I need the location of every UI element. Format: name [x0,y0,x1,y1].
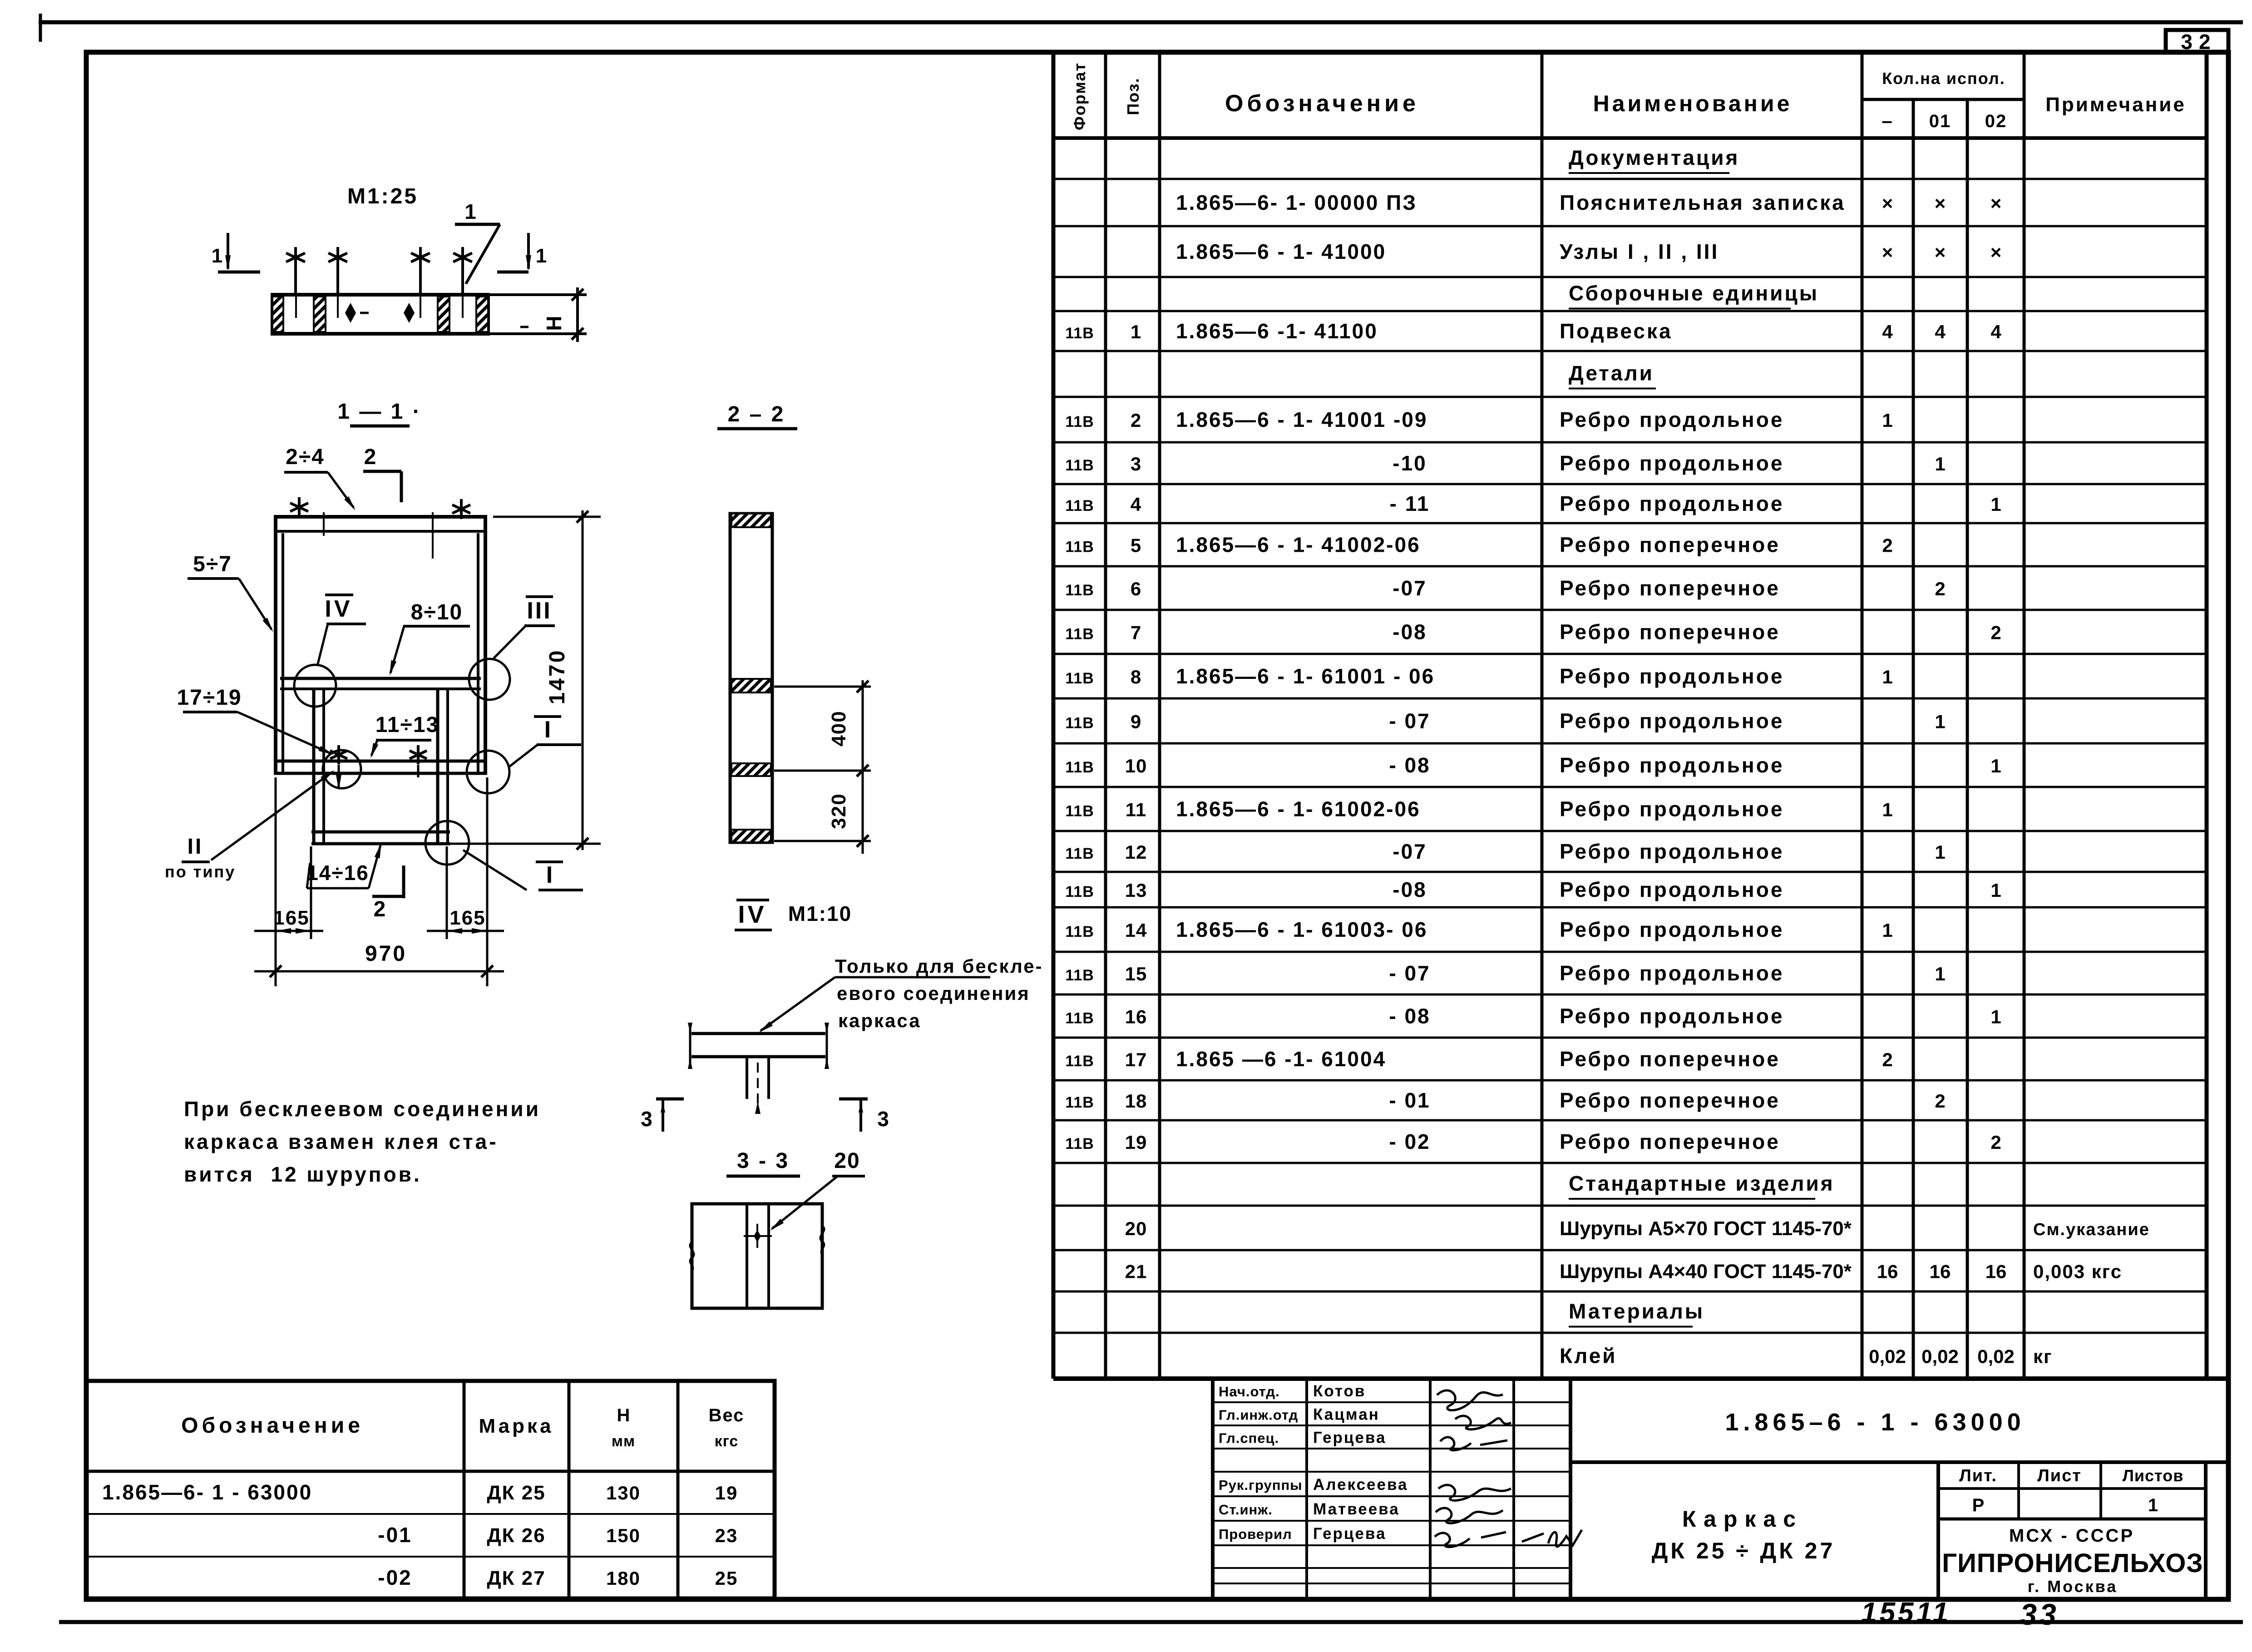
svg-text:Поз.: Поз. [1124,77,1142,115]
table row 14 [1065,709,1945,733]
plan bar diamonds [345,303,356,323]
svg-text:320: 320 [828,793,850,829]
svg-text:-02: -02 [378,1566,412,1589]
svg-text:Ребро продольное: Ребро продольное [1560,408,1784,431]
svg-text:1.865—6- 1 - 63000: 1.865—6- 1 - 63000 [102,1480,312,1504]
node circle d (I bottom) [425,821,469,865]
svg-text:2: 2 [364,445,376,469]
svg-text:Лист: Лист [2037,1466,2082,1485]
svg-text:4: 4 [1990,321,2001,342]
svg-text:Ребро поперечное: Ребро поперечное [1560,576,1780,600]
callout 2-4 with leader [284,445,356,510]
table row 10 [1065,533,1892,557]
dimension 165 left [254,777,323,986]
svg-text:0,02: 0,02 [1977,1346,2015,1367]
svg-text:02: 02 [1985,111,2007,131]
svg-text:Ребро продольное: Ребро продольное [1560,961,1784,985]
svg-text:11В: 11В [1065,845,1094,862]
dimension 1470 [450,510,601,850]
label 11-13 with leader [370,713,439,758]
svg-text:кг: кг [2033,1346,2053,1367]
svg-text:16: 16 [1877,1261,1898,1282]
svg-text:Ребро продольное: Ребро продольное [1560,918,1784,941]
svg-text:-08: -08 [1393,620,1427,644]
svg-text:каркаса взамен клея ста-: каркаса взамен клея ста- [184,1130,499,1153]
svg-text:1.865—6 - 1- 61002-06: 1.865—6 - 1- 61002-06 [1176,797,1421,821]
svg-text:×: × [1935,242,1946,263]
label 20 with leader [770,1149,865,1231]
svg-text:14÷16: 14÷16 [306,861,369,885]
table row 20 [1065,961,1945,985]
svg-text:1470: 1470 [545,649,569,705]
svg-text:11В: 11В [1065,1010,1094,1027]
table row 3 [1176,240,2001,263]
svg-text:-10: -10 [1393,451,1427,475]
signature row: Рук.группы [1219,1476,1408,1494]
svg-text:Н: Н [542,316,566,331]
section label 3-3 [726,1149,800,1176]
svg-text:ДК 25: ДК 25 [487,1482,545,1504]
svg-text:1: 1 [1882,410,1892,431]
svg-text:11В: 11В [1065,803,1094,820]
svg-text:16: 16 [1125,1006,1147,1028]
svg-text:При бесклеевом соединении: При бесклеевом соединении [184,1097,541,1121]
svg-text:10: 10 [1125,755,1147,777]
svg-text:11В: 11В [1065,1053,1094,1070]
svg-text:16: 16 [1985,1261,2007,1282]
svg-text:Гл.инж.отд: Гл.инж.отд [1219,1407,1298,1423]
svg-text:2 – 2: 2 – 2 [728,402,785,426]
svg-text:вится 12 шурупов.: вится 12 шурупов. [184,1162,422,1186]
section mark 1 (right) [497,233,547,272]
svg-text:Ребро продольное: Ребро продольное [1560,1004,1784,1028]
svg-text:См.указание: См.указание [2033,1220,2150,1239]
svg-text:каркаса: каркаса [838,1010,921,1031]
svg-text:Шурупы А5×70 ГОСТ 1145-70*: Шурупы А5×70 ГОСТ 1145-70* [1560,1217,1852,1240]
svg-text:0,02: 0,02 [1921,1346,1959,1367]
svg-text:32: 32 [2181,30,2217,54]
bottom-left table row 2 [378,1523,738,1547]
svg-text:IV: IV [325,596,352,622]
table row 7 [1065,408,1892,431]
svg-text:11В: 11В [1065,325,1094,342]
1-1 frame: mid rib (8-10) [280,677,481,680]
svg-text:1.865—6 - 1- 61001 - 06: 1.865—6 - 1- 61001 - 06 [1176,664,1435,688]
svg-text:0,003 кгс: 0,003 кгс [2033,1261,2122,1282]
svg-text:Н: Н [617,1405,630,1425]
table row 24 [1065,1130,2001,1153]
svg-text:М1:25: М1:25 [347,184,418,208]
svg-text:400: 400 [828,710,850,746]
table row 5 [1065,319,2001,343]
svg-text:Материалы: Материалы [1569,1300,1704,1323]
table row 1 [1569,146,1739,173]
spec table row lines [1053,178,2207,180]
label IV with leader [318,595,366,664]
node circle c (I) [467,751,509,793]
svg-text:4: 4 [1935,321,1946,342]
svg-text:6: 6 [1131,578,1141,599]
svg-text:1: 1 [1935,963,1945,984]
3-3 break squiggles [690,1242,694,1271]
svg-text:970: 970 [365,942,407,966]
svg-text:Стандартные изделия: Стандартные изделия [1569,1172,1835,1195]
svg-text:1: 1 [536,245,547,267]
svg-text:Обозначение: Обозначение [181,1414,364,1438]
2-2 dimension 400/320 [774,680,871,854]
svg-text:Пояснительная записка: Пояснительная записка [1560,191,1846,214]
svg-text:Вес: Вес [709,1405,745,1425]
svg-text:МСХ - СССР: МСХ - СССР [2009,1526,2134,1546]
section label 1-1 [337,400,421,426]
svg-text:1.865 —6 -1- 61004: 1.865 —6 -1- 61004 [1176,1047,1386,1071]
svg-text:-07: -07 [1393,840,1427,863]
svg-text:ДК 25 ÷ ДК 27: ДК 25 ÷ ДК 27 [1652,1538,1836,1563]
svg-text:2: 2 [1882,1049,1892,1070]
svg-text:11: 11 [1126,799,1146,821]
svg-text:- 02: - 02 [1389,1130,1430,1153]
svg-text:1.865–6 - 1 - 63000: 1.865–6 - 1 - 63000 [1725,1409,2025,1436]
svg-text:Формат: Формат [1070,62,1089,130]
svg-text:12: 12 [1125,841,1147,863]
svg-text:Котов: Котов [1313,1382,1366,1400]
table row 26 [1125,1217,2150,1240]
dimension 165 right [427,777,504,986]
svg-text:1: 1 [1990,755,2001,777]
svg-text:Нач.отд.: Нач.отд. [1219,1384,1280,1400]
svg-text:2: 2 [1990,622,2001,643]
svg-text:2: 2 [1990,1132,2001,1153]
svg-text:21: 21 [1125,1261,1147,1282]
table row 6 [1569,361,1656,389]
table row 23 [1065,1088,1945,1112]
svg-text:11В: 11В [1065,582,1094,599]
node circle e (17-19) [323,750,361,788]
label III with leader [494,597,555,658]
svg-text:1.865—6 - 1- 41001 -09: 1.865—6 - 1- 41001 -09 [1176,408,1427,431]
svg-text:165: 165 [273,907,309,929]
T-joint detail: horizontal bar [691,1032,825,1035]
svg-text:3: 3 [1131,453,1141,475]
svg-text:1: 1 [1935,711,1945,732]
1-1 frame: lower rib (11-13) [274,760,487,763]
top-left corner tick [39,14,42,42]
svg-text:3: 3 [877,1107,889,1131]
svg-text:Документация: Документация [1569,146,1739,169]
table row 27 [1125,1261,2122,1283]
svg-text:11В: 11В [1065,715,1094,732]
svg-text:8÷10: 8÷10 [411,600,463,624]
bottom-left table row lines [86,1470,775,1473]
svg-text:11В: 11В [1065,1135,1094,1152]
note: pri beskleevom soedinenii [184,1097,541,1186]
svg-text:25: 25 [715,1568,738,1589]
svg-text:01: 01 [1929,111,1951,131]
section mark 1 (top right leader) [455,200,500,284]
svg-text:Ребро продольное: Ребро продольное [1560,878,1784,901]
svg-text:1.865—6 - 1- 41000: 1.865—6 - 1- 41000 [1176,240,1386,263]
leader from note to joint [835,976,990,979]
label 8-10 with leader [390,600,470,676]
svg-text:III: III [527,598,552,624]
table row 8 [1065,451,1945,475]
bottom-left table column lines [463,1381,466,1598]
table row 18 [1065,878,2001,901]
spec table column lines [1052,52,1056,1379]
svg-text:кгс: кгс [715,1433,739,1450]
svg-text:150: 150 [606,1525,641,1546]
svg-text:3: 3 [641,1107,652,1131]
svg-text:Кол.на испол.: Кол.на испол. [1882,69,2005,88]
svg-text:1: 1 [1935,453,1945,475]
svg-text:Р: Р [1972,1495,1985,1515]
signature row: Нач.отд. [1219,1382,1366,1400]
svg-text:ДК 26: ДК 26 [487,1524,545,1547]
plan bar inner divider lines [295,295,297,318]
table row 19 [1065,918,1892,941]
section mark 3 (left) [641,1099,684,1132]
svg-text:Кацман: Кацман [1313,1406,1380,1424]
svg-text:2: 2 [1935,1090,1945,1112]
svg-text:Марка: Марка [479,1415,553,1437]
label I (right) with leader [509,717,581,767]
svg-text:Узлы I , II , III: Узлы I , II , III [1560,240,1719,263]
svg-text:Клей: Клей [1560,1344,1617,1368]
svg-text:×: × [1882,242,1893,263]
svg-text:18: 18 [1125,1090,1147,1112]
svg-text:1: 1 [1990,494,2001,515]
section label 2-2 [717,402,797,429]
svg-text:1 — 1 ·: 1 — 1 · [337,400,421,424]
outer top border line [39,20,2243,25]
plan view bar outline [272,295,488,334]
svg-text:Ребро продольное: Ребро продольное [1560,753,1784,777]
2-2 bar outline [730,514,772,842]
stars on lower rib [330,745,347,764]
spec table header bottom line [1053,136,2207,140]
svg-text:2: 2 [1882,535,1892,556]
table row 28 [1569,1300,1704,1327]
svg-text:33: 33 [2020,1598,2059,1631]
stars on top chord [290,497,308,517]
svg-text:1: 1 [1882,799,1892,821]
table row 9 [1065,492,2001,515]
svg-text:×: × [1882,193,1893,214]
svg-text:Ребро поперечное: Ребро поперечное [1560,620,1780,644]
svg-text:13: 13 [1125,880,1147,901]
svg-text:16: 16 [1930,1261,1951,1282]
svg-text:2: 2 [1935,578,1945,599]
svg-text:Ребро поперечное: Ребро поперечное [1560,1047,1780,1071]
svg-text:Ребро продольное: Ребро продольное [1560,797,1784,821]
svg-text:Детали: Детали [1569,361,1654,385]
svg-text:IV: IV [738,901,766,928]
signature row: Гл.спец. [1219,1429,1386,1447]
svg-text:г. Москва: г. Москва [2028,1577,2118,1596]
svg-text:1.865—6- 1- 00000 ПЗ: 1.865—6- 1- 00000 ПЗ [1176,191,1417,214]
svg-text:4: 4 [1131,494,1141,515]
title block: document number cell line [1570,1460,2228,1464]
svg-text:17: 17 [1125,1049,1147,1070]
svg-text:Ст.инж.: Ст.инж. [1219,1502,1273,1518]
signature row: Проверил [1219,1525,1386,1543]
dimension 970 [254,942,504,977]
svg-text:1: 1 [1935,841,1945,863]
svg-text:14: 14 [1125,920,1147,941]
svg-text:9: 9 [1131,711,1141,732]
svg-text:2: 2 [374,897,386,921]
svg-text:–: – [1882,110,1893,131]
1-1 frame: right inner vertical [436,689,440,844]
plan H dimension [490,287,587,342]
svg-text:Ребро продольное: Ребро продольное [1560,451,1784,475]
table row 2 [1176,191,2001,214]
2-2 hatched bands [731,514,771,527]
svg-text:×: × [1935,193,1946,214]
bottom-left table row 3 [378,1566,738,1589]
section mark 3 (right) [839,1099,889,1132]
svg-text:М1:10: М1:10 [788,902,852,925]
svg-text:1.865—6 - 1- 61003- 06: 1.865—6 - 1- 61003- 06 [1176,918,1427,941]
label 14-16 flag with leader [306,843,381,888]
svg-text:1: 1 [1882,666,1892,688]
screw stars above plan bar [286,247,305,268]
table row 21 [1065,1004,2001,1028]
1-1 frame: left inner vertical [312,689,316,844]
svg-text:II: II [188,835,203,859]
svg-text:- 11: - 11 [1390,492,1430,515]
svg-text:20: 20 [834,1149,860,1173]
outer bottom border line [59,1620,2243,1624]
label 17-19 with leader [177,686,334,755]
table row 17 [1065,840,1945,863]
note: tolko dlya beskleevogo [835,955,1043,1031]
signature scribbles [1437,1390,1503,1410]
spec table sub-header split line (kol na ispol) [1862,98,2024,101]
svg-text:по типу: по типу [165,862,236,881]
table row 11 [1065,576,1945,600]
table row 12 [1065,620,2001,644]
detail label IV M1:10 [735,900,852,930]
spec table bottom line [1053,1376,2228,1381]
svg-text:1: 1 [464,200,476,223]
svg-text:165: 165 [449,907,485,929]
bottom-left table frame [86,1381,775,1598]
section mark 2 (top) [363,445,401,502]
svg-text:Проверил: Проверил [1219,1526,1292,1542]
1-1 frame: right post [484,515,487,775]
svg-text:5: 5 [1131,535,1141,556]
svg-text:I: I [544,717,551,743]
svg-text:5÷7: 5÷7 [193,552,232,576]
1-1 frame: bottom chord [311,831,450,834]
svg-text:ДК 27: ДК 27 [487,1567,545,1589]
svg-text:Листов: Листов [2123,1466,2184,1485]
svg-text:2: 2 [1131,410,1141,431]
svg-text:Наименование: Наименование [1593,91,1793,116]
node circle b (III) [469,659,510,700]
label I (bottom right) with leader [463,850,583,890]
svg-text:Ребро поперечное: Ребро поперечное [1560,533,1780,557]
svg-text:Только для бескле-: Только для бескле- [835,955,1043,977]
svg-text:15: 15 [1125,963,1147,984]
svg-text:Матвеева: Матвеева [1313,1500,1400,1518]
section mark 2 (bottom) [372,866,404,921]
svg-text:Примечание: Примечание [2045,94,2186,116]
svg-text:1.865—6 -1- 41100: 1.865—6 -1- 41100 [1176,319,1378,343]
svg-text:23: 23 [715,1525,738,1546]
svg-text:Обозначение: Обозначение [1225,90,1419,117]
svg-text:1: 1 [1882,920,1892,941]
svg-text:0,02: 0,02 [1869,1346,1906,1367]
svg-text:180: 180 [606,1568,641,1589]
svg-text:- 08: - 08 [1389,1004,1430,1028]
svg-text:Рук.группы: Рук.группы [1219,1477,1303,1493]
svg-text:130: 130 [606,1482,641,1504]
signature row: Ст.инж. [1219,1500,1400,1518]
svg-text:- 01: - 01 [1389,1088,1430,1112]
svg-text:Лит.: Лит. [1959,1466,1997,1485]
svg-text:Алексеева: Алексеева [1313,1476,1408,1494]
svg-text:-08: -08 [1393,878,1427,901]
table row 13 [1065,664,1892,688]
svg-text:I: I [546,862,553,888]
svg-text:2÷4: 2÷4 [286,445,325,469]
svg-text:1: 1 [1131,321,1141,342]
title block signature grid verticals [1211,1379,1215,1599]
title block signature grid row lines [1213,1401,1570,1403]
bottom-left table row 1 [102,1480,738,1504]
svg-text:Ребро продольное: Ребро продольное [1560,492,1784,515]
svg-text:11В: 11В [1065,670,1094,687]
svg-text:1: 1 [1990,880,2001,901]
svg-text:15511: 15511 [1861,1597,1951,1628]
svg-text:- 07: - 07 [1389,709,1430,733]
svg-text:11В: 11В [1065,457,1094,474]
svg-text:Ребро продольное: Ребро продольное [1560,840,1784,863]
label II po tipu with leader [165,770,335,881]
svg-text:Ребро поперечное: Ребро поперечное [1560,1088,1780,1112]
svg-text:11В: 11В [1065,413,1094,430]
svg-text:-07: -07 [1393,576,1427,600]
svg-text:11В: 11В [1065,967,1094,984]
signature row: Гл.инж.отд [1219,1406,1380,1424]
svg-text:19: 19 [715,1482,738,1504]
svg-text:Каркас: Каркас [1682,1506,1803,1532]
table row 29 [1560,1344,2053,1368]
svg-text:1.865—6 - 1- 41002-06: 1.865—6 - 1- 41002-06 [1176,533,1421,557]
svg-text:Ребро продольное: Ребро продольное [1560,709,1784,733]
svg-text:11В: 11В [1065,883,1094,900]
svg-text:11В: 11В [1065,759,1094,776]
svg-text:11В: 11В [1065,626,1094,643]
svg-text:Ребро поперечное: Ребро поперечное [1560,1130,1780,1153]
svg-text:ГИПРОНИСЕЛЬХОЗ: ГИПРОНИСЕЛЬХОЗ [1942,1548,2203,1578]
svg-text:11В: 11В [1065,1094,1094,1111]
svg-text:евого соединения: евого соединения [837,983,1030,1004]
3-3 screw cross [756,1224,758,1248]
svg-text:Герцева: Герцева [1313,1525,1386,1543]
section 3-3 rectangle [692,1204,822,1308]
svg-text:1: 1 [212,245,222,267]
svg-text:Шурупы А4×40 ГОСТ 1145-70*: Шурупы А4×40 ГОСТ 1145-70* [1560,1261,1852,1283]
svg-text:- 08: - 08 [1389,753,1430,777]
svg-text:-01: -01 [378,1523,412,1547]
svg-text:11÷13: 11÷13 [375,713,439,737]
svg-text:1: 1 [1990,1006,2001,1028]
svg-text:1: 1 [2148,1495,2158,1515]
lit/list/listov grid [1936,1462,1940,1599]
